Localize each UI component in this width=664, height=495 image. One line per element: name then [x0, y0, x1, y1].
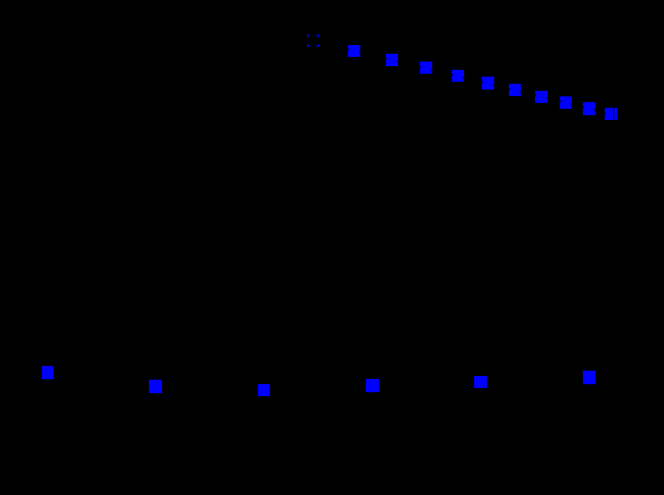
node N2 (pin square): [348, 45, 360, 57]
wire nicks where diagonal net crosses pin square edges: [348, 48, 606, 113]
wire (vertical net dropping through node N11): [613, 100, 615, 330]
junction (solder dot at node N1): [307, 34, 320, 47]
node B3 (pin square): [258, 384, 270, 396]
node B6 (pin square): [583, 371, 595, 385]
node N7 (pin square): [509, 84, 521, 96]
node N1 (pin square): [307, 35, 319, 47]
node B1 (pin square): [42, 366, 54, 379]
node B4 (pin square): [366, 379, 379, 392]
node B2 (pin square): [149, 380, 162, 394]
node N6 (pin square): [482, 77, 494, 90]
node N10 (pin square): [583, 102, 595, 115]
node N4 (pin square): [420, 62, 432, 74]
node B5 (pin square): [474, 376, 487, 388]
node N8 (pin square): [535, 91, 548, 103]
node N11 (pin square): [605, 108, 618, 120]
node N5 (pin square): [452, 70, 464, 82]
node N9 (pin square): [560, 96, 572, 108]
wire (diagonal net from node N1 to node N11): [311, 40, 614, 114]
node N3 (pin square): [386, 54, 398, 66]
